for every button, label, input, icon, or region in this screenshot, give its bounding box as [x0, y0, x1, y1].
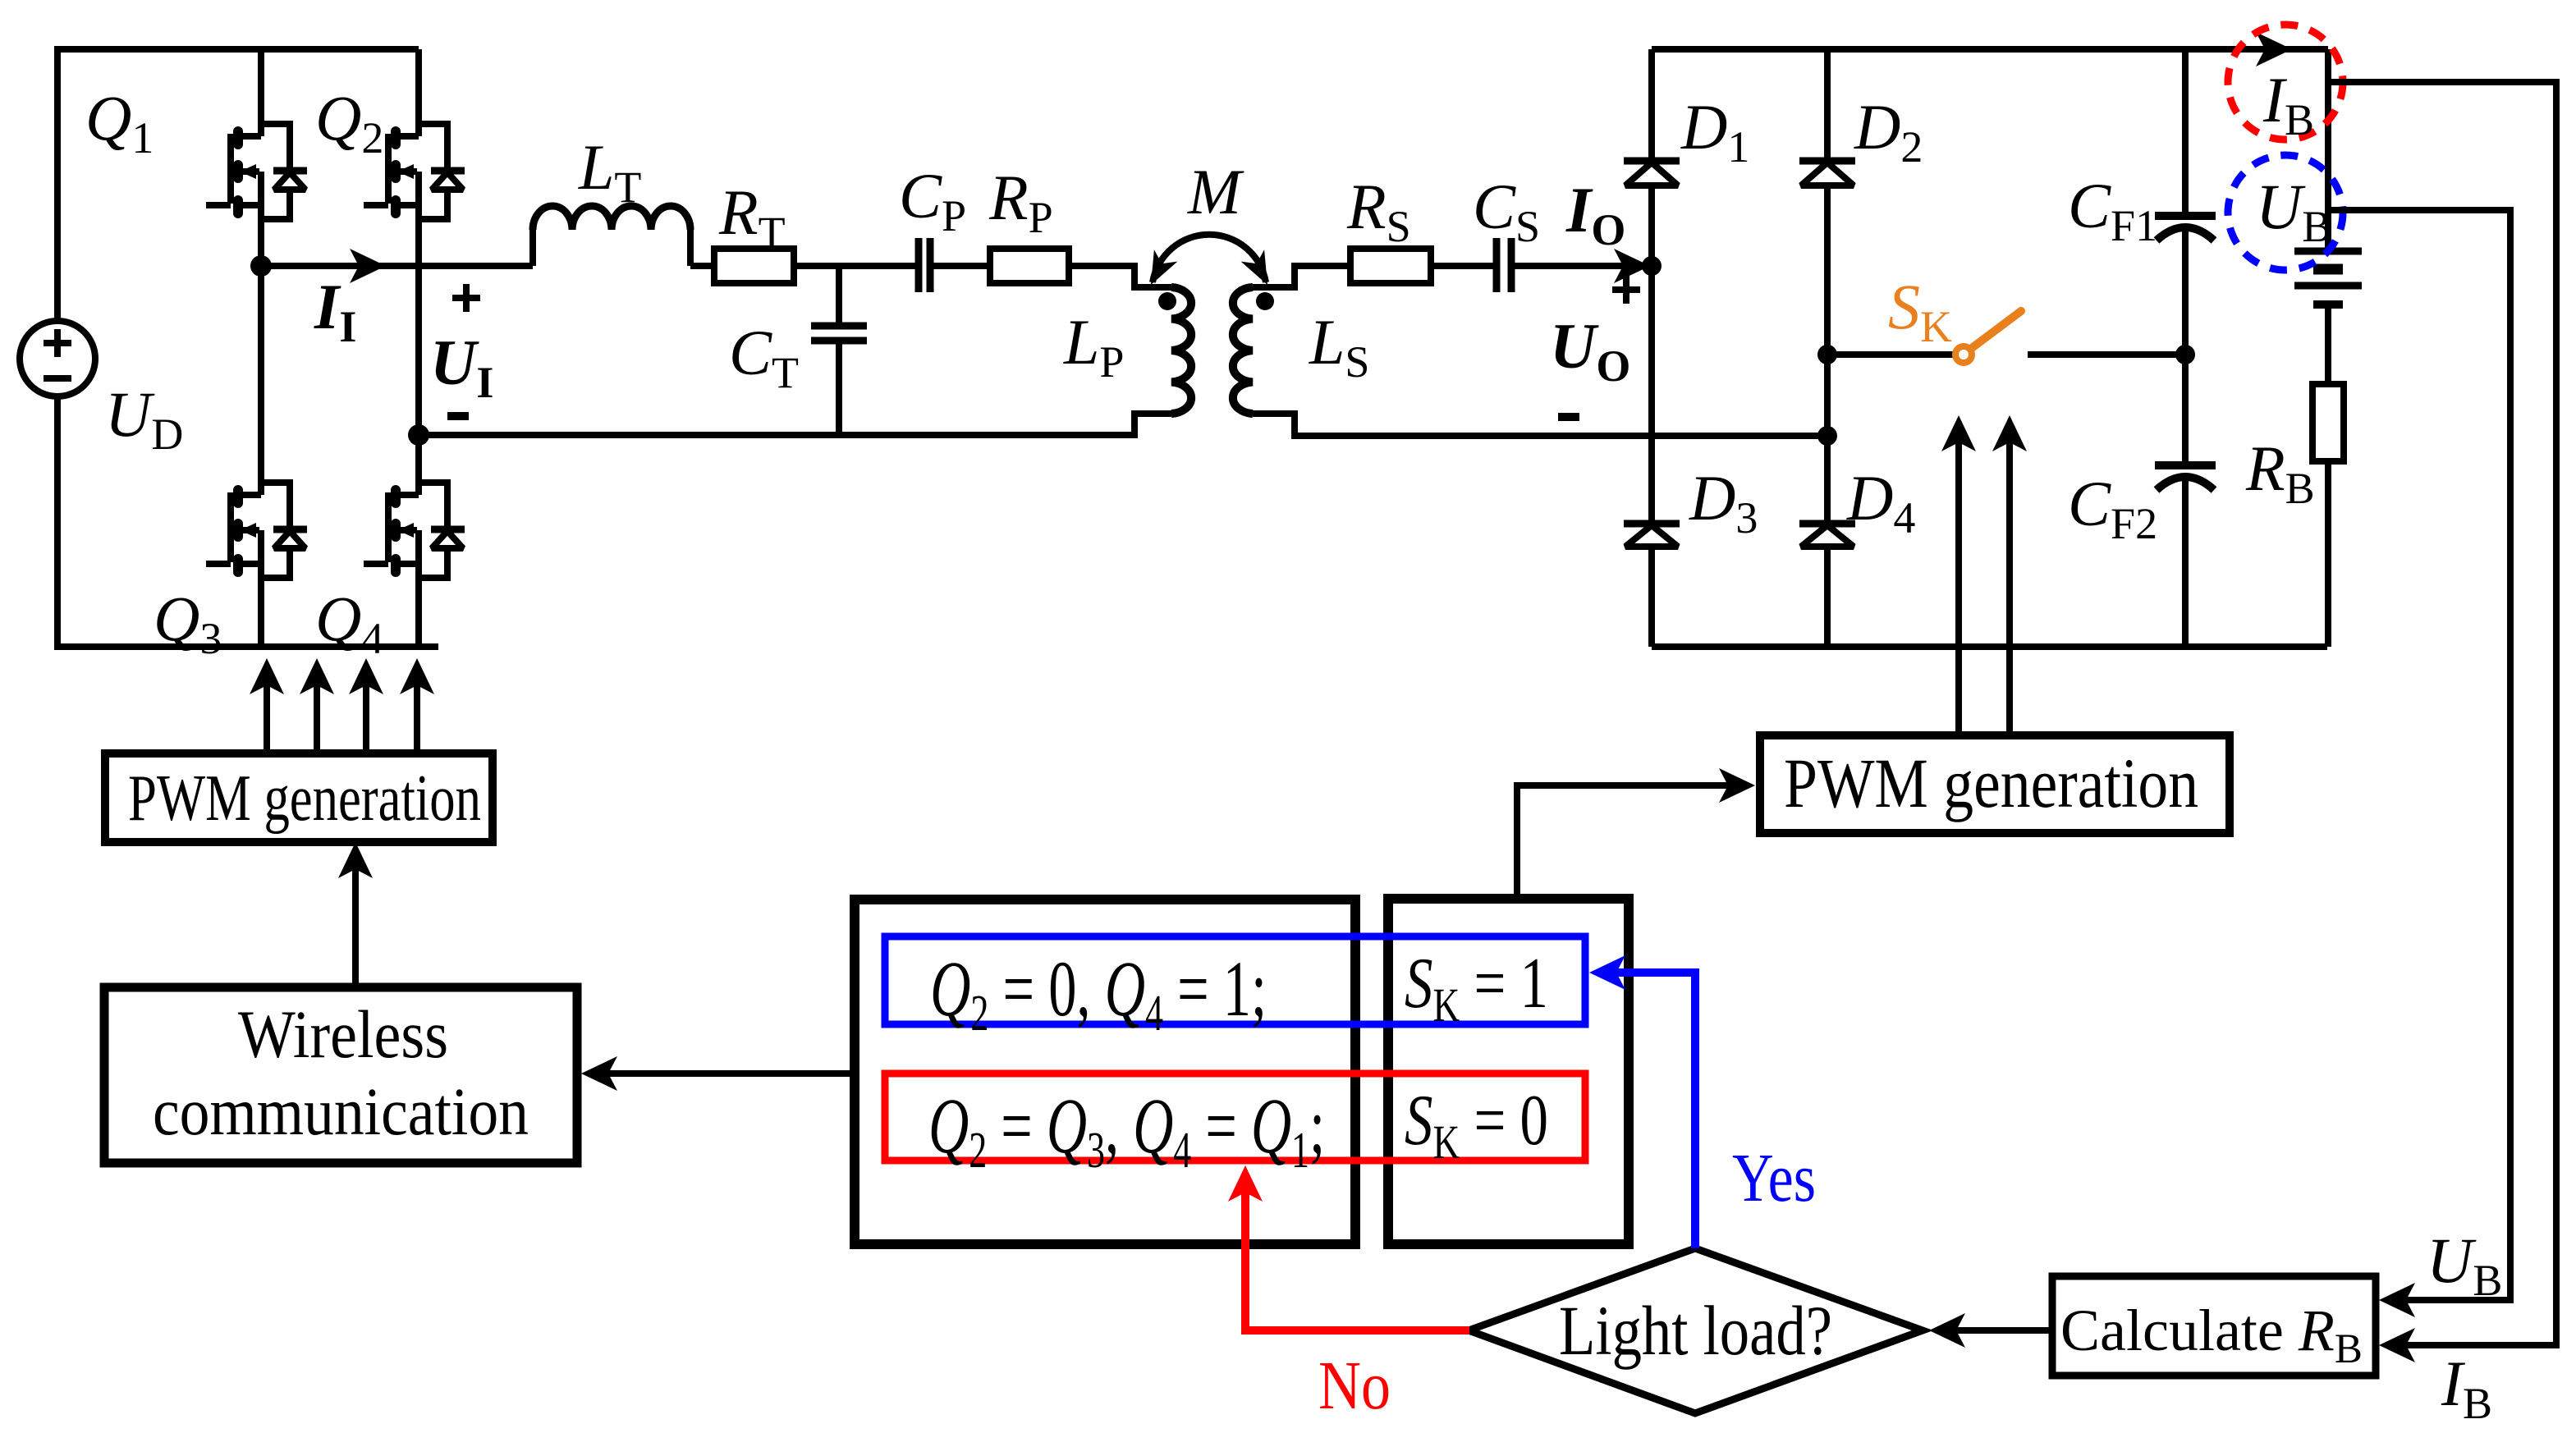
capacitor C_F2	[2155, 461, 2216, 469]
svg-text:Yes: Yes	[1732, 1140, 1816, 1216]
inductor L_T	[529, 230, 536, 266]
node: D2/D4 midpoint (S_K tap)	[1817, 345, 1837, 364]
wire: S_K right contact to filter midpoint	[2028, 351, 2185, 358]
polarity dot (L_S)	[1256, 292, 1274, 310]
decision diamond: Light load?	[1469, 1248, 1923, 1413]
transistor Q1	[206, 124, 307, 219]
switch S_K lever	[1972, 311, 2021, 348]
transistor Q3	[206, 483, 307, 578]
block: PWM generation (primary side)	[105, 753, 493, 842]
label + (U_I plus)	[452, 295, 480, 301]
arrow: logic output to Wireless communication	[593, 1070, 855, 1077]
wire: R_T to C_P (through C_T tap)	[794, 263, 919, 269]
svg-text:Wireless: Wireless	[238, 996, 448, 1072]
svg-text:communication: communication	[153, 1074, 529, 1149]
wire: I_B feedback line to Calculate R_B	[2328, 82, 2556, 1345]
svg-text:PWM generation: PWM generation	[1784, 744, 2198, 822]
mutual inductance arrow M	[1153, 235, 1266, 282]
label - (U_I minus)	[447, 412, 469, 420]
wire: DC source positive lead and inverter top rail	[57, 49, 419, 321]
diode D4	[1799, 520, 1855, 528]
wire: Q4 source to bottom rail	[415, 577, 422, 647]
arrows: PWM to S_K switch	[1955, 427, 1962, 735]
resistor R_P	[990, 249, 1069, 283]
capacitor C_F1	[2155, 212, 2216, 220]
block: S_K logic box	[1388, 899, 1629, 1244]
svg-text:Calculate RB: Calculate RB	[2060, 1298, 2363, 1372]
block: Calculate R_B	[2052, 1276, 2376, 1376]
wire: R_S to C_S	[1431, 263, 1497, 269]
polarity dot (L_P)	[1158, 292, 1176, 310]
wire: phase A to L_T with I_I arrow	[261, 263, 533, 269]
arrows: gate signals to inverter	[264, 671, 270, 757]
wire: C_F2 lower lead to bottom rail	[2182, 478, 2189, 647]
sampling circle U_B (blue dashed)	[2228, 155, 2343, 270]
diode D1	[1624, 158, 1680, 165]
arrow: I_B current direction on top rail	[2256, 32, 2292, 66]
arrow: Calculate R_B to diamond	[1939, 1327, 2052, 1334]
wire: R_B lower lead to bottom rail	[2325, 461, 2331, 647]
path: Yes (blue) from diamond to S_K=1	[1599, 973, 1695, 1248]
node B (inverter phase B, U_I-)	[408, 424, 429, 446]
wire: C_T branch upper lead	[836, 266, 842, 326]
path: No (red) from diamond to red condition box	[1245, 1175, 1469, 1330]
wire: C_F1 lower lead to midpoint	[2182, 229, 2189, 355]
capacitor C_S	[1493, 238, 1501, 292]
capacitor C_T	[811, 323, 867, 330]
svg-text:No: No	[1318, 1348, 1391, 1424]
svg-text:M: M	[1187, 156, 1244, 227]
svg-text:SK = 0: SK = 0	[1405, 1081, 1548, 1169]
wire: L_P bottom step to tank bottom rail	[419, 414, 1171, 435]
block: gate logic box	[855, 900, 1355, 1244]
block: PWM generation (secondary side)	[1760, 735, 2230, 833]
wire: battery to R_B	[2325, 304, 2331, 384]
label + (U_O plus)	[1612, 286, 1640, 293]
resistor R_S	[1350, 249, 1431, 283]
wire: U_B feedback line to Calculate R_B	[2328, 210, 2510, 1300]
wire: S_K left contact	[1827, 351, 1955, 358]
node: filter capacitor midpoint	[2175, 345, 2195, 364]
highlight: blue condition box	[885, 936, 1585, 1024]
wire: L_S top step to R_S	[1253, 266, 1350, 287]
wire: Q1 drain lead from top rail	[258, 49, 264, 124]
wire: rectifier bottom rail	[1652, 643, 2327, 650]
wire: C_F2 upper lead	[2182, 355, 2189, 465]
node: rectifier AC+ input	[1642, 256, 1662, 276]
wire: Q2 drain lead from top rail	[415, 49, 422, 124]
svg-text:PWM generation: PWM generation	[128, 762, 481, 835]
wire: R_P to L_P step	[1069, 266, 1171, 287]
wire: DC source negative lead and inverter bottom rail	[57, 396, 438, 647]
diode D2	[1799, 158, 1855, 165]
wire: rectifier top rail to battery corner	[1652, 46, 2328, 53]
node A (inverter phase A, U_I+)	[250, 255, 272, 277]
wire: phase-A leg down to Q3 drain	[258, 266, 264, 483]
wire: battery upper lead	[2325, 49, 2331, 251]
arrow: S_K logic to PWM generation (secondary)	[1517, 785, 1747, 899]
wire: C_S to rectifier input node with I_O arrow	[1511, 263, 1652, 269]
transistor Q4	[364, 483, 465, 578]
highlight: red condition box	[885, 1074, 1585, 1161]
wire: rectifier right leg (D2/D4)	[1824, 49, 1831, 647]
primary winding L_P	[1171, 287, 1191, 414]
wire: Q1 source to phase-A node	[258, 219, 264, 266]
resistor R_T	[714, 249, 794, 283]
wire: rectifier left leg (D1/D3)	[1648, 49, 1655, 647]
wire: Q2 source through phase-B node to Q4 drain	[415, 219, 422, 483]
battery	[2294, 248, 2362, 255]
wire: C_P to R_P	[930, 263, 990, 269]
wire: L_S bottom step to secondary bottom rail	[1253, 414, 1827, 436]
secondary winding L_S	[1233, 287, 1253, 414]
transistor Q2	[364, 124, 465, 219]
wire: C_T branch lower lead to bottom rail	[836, 341, 842, 435]
arrow: Wireless communication to PWM generation	[352, 854, 359, 987]
svg-text:Light load?: Light load?	[1559, 1291, 1832, 1370]
wire: C_F1 upper lead	[2182, 49, 2189, 216]
node: rectifier AC- input on bottom of secondary	[1817, 426, 1837, 446]
svg-text:Q2 = Q3, Q4 = Q1;: Q2 = Q3, Q4 = Q1;	[928, 1082, 1325, 1179]
wire: Q3 source to bottom rail	[258, 577, 264, 647]
switch S_K (open circle)	[1955, 346, 1972, 363]
sampling circle I_B (red dashed)	[2228, 25, 2343, 140]
resistor R_B	[2312, 384, 2344, 461]
diode D3	[1624, 520, 1680, 528]
svg-text:SK = 1: SK = 1	[1405, 944, 1548, 1032]
capacitor C_P	[915, 238, 923, 292]
block: Wireless communication	[104, 987, 577, 1163]
label - (U_O minus)	[1558, 413, 1579, 421]
DC voltage source U_D	[20, 321, 95, 396]
wire: L_T to R_T	[690, 263, 714, 269]
